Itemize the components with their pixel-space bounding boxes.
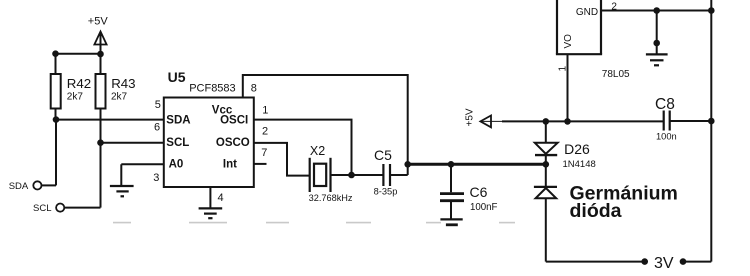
power +5V symbol top-left [88,15,109,54]
junction dot VO [564,118,571,125]
svg-text:7: 7 [261,147,267,159]
ground at pin 4 [199,208,223,218]
junction dot right [97,51,104,58]
svg-text:U5: U5 [168,69,186,85]
svg-text:D26: D26 [564,141,590,157]
svg-text:SCL: SCL [166,137,189,149]
wire SDA row [56,119,164,121]
capacitor C8 [655,96,711,142]
ground at A0 [110,186,134,196]
junction dot 3V right [680,258,687,265]
svg-text:2k7: 2k7 [111,91,128,102]
junction dot R43/SCL [97,139,104,146]
svg-text:3V: 3V [654,255,674,272]
regulator 78L05 [556,0,630,80]
junction dot GND corner [708,7,715,14]
svg-text:8-35p: 8-35p [374,186,398,196]
power +5V arrow (right side) [464,108,502,127]
label Germanium dioda [570,183,678,222]
junction dot left [52,50,59,57]
pin 2 GND wire [601,10,711,12]
wire +5V rail right [502,120,664,122]
pin 2 OSCO wire [254,143,310,176]
svg-text:6: 6 [154,121,160,133]
svg-text:100nF: 100nF [470,202,498,213]
svg-text:2k7: 2k7 [67,91,84,102]
pin 7 Int stub [254,163,267,165]
thick Vcc rail wire [408,163,546,166]
svg-text:GND: GND [576,7,598,18]
svg-text:R43: R43 [111,76,135,91]
svg-text:8: 8 [251,83,257,95]
ground at 78L05 [646,11,668,66]
wire 3V right [683,261,711,263]
pin 3 / A0 wire [121,164,164,185]
junction dot X2/C5/OSCI [348,172,355,179]
wire 3V left [546,261,645,263]
svg-text:+5V: +5V [88,15,109,27]
svg-text:Int: Int [223,158,237,170]
IC U5 PCF8583 box [164,69,254,187]
svg-text:4: 4 [218,192,224,204]
pin 1 OSCI wire [254,120,352,175]
svg-text:2: 2 [262,126,268,138]
wire right vertical rail [710,0,712,262]
junction dot 3V left [641,258,648,265]
terminal SDA [9,120,56,192]
svg-text:78L05: 78L05 [602,69,630,80]
svg-text:A0: A0 [169,158,184,170]
junction dot C8 right [708,118,715,125]
svg-text:C6: C6 [470,184,488,200]
ground at C6 [440,219,462,224]
svg-text:+5V: +5V [464,108,475,126]
svg-text:X2: X2 [310,144,325,158]
svg-text:SDA: SDA [9,181,29,192]
wire +5V rail to resistors [56,53,101,55]
capacitor C6 [440,164,498,219]
germanium diode [534,164,557,261]
wire SCL row [101,142,164,144]
resistor R43 [96,54,136,143]
capacitor C5 [374,147,408,196]
junction dot D26 top [543,118,550,125]
svg-text:dióda: dióda [570,200,622,222]
svg-text:C5: C5 [374,147,392,163]
svg-text:5: 5 [155,99,161,111]
pin 4 wire [210,187,223,208]
svg-text:C8: C8 [655,96,675,113]
svg-text:SDA: SDA [166,115,190,127]
svg-text:3: 3 [153,172,159,184]
pin 8 Vcc wire [243,75,408,175]
resistor R42 [51,54,92,120]
junction dot C6 [448,161,455,168]
junction dot GND wire [653,7,660,14]
junction dot C5/pin8/rail [404,161,411,168]
diode D26 [535,121,596,169]
svg-text:1: 1 [262,104,268,116]
svg-text:PCF8583: PCF8583 [189,82,235,94]
svg-text:32.768kHz: 32.768kHz [309,193,353,203]
pin 1 VO wire [567,54,569,121]
svg-text:SCL: SCL [33,203,51,214]
svg-text:1N4148: 1N4148 [563,159,596,170]
svg-text:OSCI: OSCI [220,114,248,126]
faint scan artifacts row [113,222,515,224]
crystal X2 [309,144,353,203]
junction dot rail/D26/Ge [543,161,550,168]
svg-text:VO: VO [563,34,574,49]
svg-text:OSCO: OSCO [216,137,250,149]
terminal SCL [33,143,101,214]
junction dot R42/SDA [53,116,60,123]
svg-text:100n: 100n [656,132,677,142]
wire X2 junction to C5 [352,174,384,176]
svg-text:R42: R42 [67,76,91,91]
